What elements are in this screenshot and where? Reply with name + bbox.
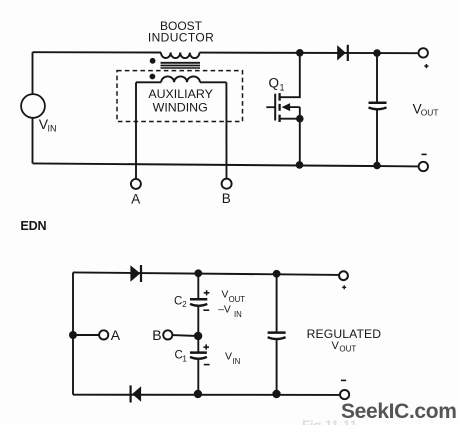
wire aux winding right lead [200, 81, 227, 83]
wire C1 lower lead [197, 359, 199, 395]
node Q1 drain on top bus [296, 49, 304, 57]
svg-text:OUT: OUT [421, 108, 439, 118]
plus sign C1 [203, 344, 209, 349]
minus sign output [422, 153, 427, 155]
terminal output minus [419, 162, 428, 171]
wire top bus lower circuit [73, 272, 339, 275]
node output cap top [373, 49, 381, 57]
terminal B [222, 179, 232, 189]
wire B lead down [225, 82, 227, 179]
wire C2 lower lead [197, 306, 199, 336]
svg-text:SeekIC.com: SeekIC.com [341, 400, 457, 423]
plus sign C2 [204, 290, 210, 295]
plus sign output [424, 64, 428, 68]
svg-text:1: 1 [182, 354, 187, 363]
node C1 bottom [194, 390, 202, 398]
svg-text:A: A [131, 191, 140, 206]
svg-text:Fig 11-11: Fig 11-11 [302, 418, 357, 425]
diode D3 bottom [131, 385, 142, 402]
capacitor C1 bottom plate [190, 357, 207, 359]
terminal regulated plus [339, 271, 348, 280]
wire aux winding left lead [136, 81, 161, 83]
diode D2 top [130, 265, 141, 282]
terminal A [131, 179, 141, 189]
wire Q1 drain [280, 53, 300, 97]
minus sign regulated [341, 379, 346, 381]
wire C2 upper lead [197, 273, 199, 298]
node mid B [194, 332, 202, 340]
svg-text:REGULATED: REGULATED [307, 327, 382, 341]
label VOUT minus VIN [218, 289, 245, 319]
svg-text:EDN: EDN [20, 219, 46, 233]
wire C1 upper lead [197, 336, 199, 352]
label Q1 [269, 76, 285, 93]
transistor Q1 channel bars [278, 93, 280, 122]
svg-text:B: B [152, 327, 161, 343]
label C2 [174, 295, 187, 309]
svg-text:IN: IN [234, 310, 242, 319]
wire left rail [32, 52, 34, 94]
transistor Q1 gate bar [274, 94, 276, 121]
capacitor C2 bottom plate [190, 304, 207, 306]
dashed box auxiliary winding [117, 71, 243, 122]
svg-text:2: 2 [182, 300, 187, 309]
wire Q1 source lead [280, 118, 300, 120]
minus sign C2 [203, 309, 209, 311]
label REGULATED VOUT [307, 327, 382, 354]
wire Q1 gate lead [266, 106, 275, 108]
source VIN circle [21, 94, 45, 118]
phase dot top winding [150, 58, 156, 64]
terminal B lower circuit [163, 330, 172, 339]
terminal output plus [419, 48, 428, 57]
svg-text:Q: Q [269, 76, 280, 91]
node Q1 source [296, 115, 304, 123]
svg-text:B: B [222, 191, 231, 206]
svg-text:–V: –V [218, 305, 231, 316]
wire filter cap lower lead [276, 339, 278, 394]
wire left rail lower circuit [72, 272, 74, 394]
node output cap bottom [373, 162, 381, 170]
transistor Q1 body arrow [282, 103, 300, 111]
label BOOST INDUCTOR [148, 19, 214, 45]
node A on left rail [69, 331, 77, 339]
node Q1 source on bottom bus [296, 161, 304, 169]
capacitor C1 top plate [190, 351, 207, 354]
svg-text:1: 1 [280, 83, 285, 93]
svg-text:IN: IN [48, 124, 57, 134]
svg-text:IN: IN [233, 357, 241, 366]
capacitor filter bottom plate [268, 337, 286, 339]
wire A stub [73, 334, 99, 336]
capacitor C2 top plate [190, 298, 207, 301]
wire top bus right [199, 52, 418, 55]
label VIN [39, 116, 57, 134]
svg-text:C: C [174, 295, 182, 307]
svg-text:V: V [222, 289, 229, 300]
terminal A lower circuit [99, 330, 108, 339]
label AUXILIARY WINDING [148, 87, 213, 115]
wire bottom bus lower circuit [73, 394, 340, 396]
capacitor output top plate [369, 102, 387, 105]
phase dot auxiliary winding [150, 74, 156, 80]
wire B stub [172, 334, 198, 337]
node filter cap top [273, 270, 281, 278]
capacitor filter top plate [268, 331, 286, 334]
svg-text:OUT: OUT [339, 345, 356, 354]
wire cap branch upper [376, 53, 378, 102]
node C2 top [194, 269, 202, 277]
wire top bus left [33, 51, 162, 53]
wire bottom bus [33, 163, 419, 166]
terminal regulated minus [340, 390, 349, 399]
wire Q1 source down [299, 119, 301, 165]
wire A lead down [135, 82, 137, 179]
wire filter cap upper lead [276, 274, 278, 332]
svg-text:WINDING: WINDING [153, 101, 208, 115]
capacitor output bottom plate [369, 107, 387, 109]
svg-text:INDUCTOR: INDUCTOR [148, 31, 214, 45]
node filter cap bottom [272, 390, 280, 398]
svg-text:V: V [225, 351, 232, 363]
svg-text:OUT: OUT [229, 295, 246, 304]
svg-text:V: V [332, 340, 340, 352]
minus sign C1 [204, 364, 210, 366]
label VIN lower [225, 351, 240, 366]
plus sign regulated [342, 285, 346, 289]
wire Q1 body to source [299, 107, 301, 119]
label VOUT top circuit [413, 101, 439, 117]
diode D1 rectifier [337, 45, 348, 61]
svg-text:AUXILIARY: AUXILIARY [148, 87, 213, 101]
transformer core lines [161, 63, 201, 68]
svg-text:A: A [111, 327, 121, 343]
wire left rail lower [32, 118, 34, 163]
label C1 [175, 350, 188, 364]
inductor auxiliary winding coil [161, 76, 200, 82]
inductor L boost winding [161, 53, 199, 59]
wire cap branch lower [376, 110, 378, 166]
